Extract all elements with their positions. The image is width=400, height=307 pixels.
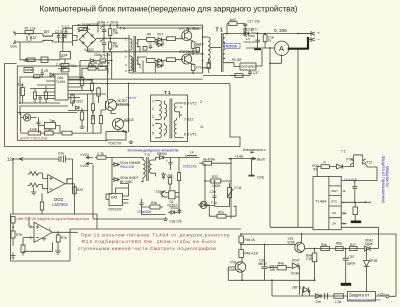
snubber resistor R32 — [227, 22, 245, 26]
T5 feed wires — [141, 158, 143, 182]
svg-text:R Т: R Т — [100, 55, 105, 59]
resistor R31a — [207, 60, 210, 74]
svg-text:С 1,2: С 1,2 — [62, 24, 70, 28]
resistor R29 — [99, 110, 102, 134]
optocoupler box U2 — [230, 49, 262, 70]
resistor R22 — [205, 179, 232, 183]
svg-text:R4в 4,1В: R4в 4,1В — [245, 252, 258, 256]
feedback vertical — [72, 159, 74, 187]
DA1 left pin wires — [30, 77, 55, 99]
svg-text:R22: R22 — [212, 175, 218, 179]
diode VD12 — [76, 106, 79, 109]
resistor R28 — [91, 116, 94, 134]
vertical x231 — [230, 159, 232, 219]
svg-text:L4: L4 — [190, 151, 194, 155]
svg-text:VТ1 2SС945В: VТ1 2SС945В — [179, 27, 199, 31]
capacitor C28 — [213, 194, 217, 201]
svg-text:2Н: 2Н — [332, 222, 336, 226]
svg-text:чУ2В: чУ2В — [287, 240, 295, 244]
resistor R34 — [200, 161, 232, 165]
primary taps — [202, 36, 204, 69]
diodes VD7 — [155, 38, 164, 47]
svg-text:R7в: R7в — [16, 233, 22, 237]
rail y28 — [117, 25, 202, 28]
svg-text:Др1: Др1 — [44, 30, 50, 34]
svg-text:КД4в: КД4в — [365, 242, 373, 246]
svg-text:ОПТОРЕЗ: ОПТОРЕЗ — [241, 65, 256, 69]
resistor 4148 — [28, 131, 41, 135]
svg-text:Компьютерный блок питание(пере: Компьютерный блок питание(переделано для… — [40, 5, 298, 14]
snubber capacitor C17 — [243, 24, 247, 34]
svg-text:−: − — [317, 38, 320, 43]
emitter to R11 — [189, 40, 193, 41]
capacitor C40 — [352, 181, 357, 203]
fuse FU2 — [95, 156, 141, 159]
svg-text:перегрузки по напряжению: перегрузки по напряжению — [348, 298, 381, 301]
svg-text:ОШТ: ОШТ — [331, 189, 338, 193]
ground g3 — [80, 124, 85, 129]
capacitor C37 — [140, 199, 144, 209]
resistor R33 — [142, 205, 164, 209]
svg-text:2: 2 — [200, 100, 202, 104]
resistor R38 — [11, 231, 15, 246]
T1 secondary lower — [223, 50, 230, 63]
diode VD6 — [80, 59, 100, 63]
resistor R50 — [321, 165, 329, 169]
svg-text:ч VD3: ч VD3 — [80, 153, 89, 157]
capacitor C14 — [122, 130, 126, 131]
svg-text:ВЫХ: ВЫХ — [257, 158, 266, 162]
pin labels — [30, 225, 51, 240]
capacitor C58 — [325, 293, 328, 299]
svg-text:ЦвОн: ЦвОн — [347, 262, 356, 266]
transistor VT11 — [351, 159, 354, 166]
pin cell lines — [329, 186, 341, 218]
ground B — [11, 253, 16, 259]
wire 12v arrows — [86, 156, 93, 158]
capacitor C57 — [343, 249, 349, 284]
capacitor C12 — [236, 70, 252, 76]
svg-text:R1в: R1в — [88, 63, 94, 67]
svg-text:1: 1 — [152, 99, 154, 103]
cell labels — [331, 189, 338, 226]
svg-text:2: 2 — [30, 236, 32, 240]
long wire y79 — [68, 78, 203, 80]
ground G2 — [129, 140, 134, 144]
resistor R1v — [71, 94, 74, 106]
resistor R36 — [209, 214, 236, 218]
svg-text:РВИС206: РВИС206 — [120, 165, 134, 169]
T1 core — [222, 33, 224, 72]
svg-text:DТС: DТС — [331, 199, 338, 203]
svg-text:3: 3 — [152, 115, 154, 119]
capacitor C12b — [58, 67, 66, 71]
label KOCA — [225, 43, 241, 48]
svg-text:С17 1Ув: С17 1Ув — [248, 20, 260, 24]
thick ground — [351, 221, 361, 224]
svg-text:6 К VТ1: 6 К VТ1 — [184, 133, 197, 137]
svg-text:1в: 1в — [342, 212, 346, 216]
resistor R40 — [56, 232, 60, 251]
node dots — [92, 83, 129, 122]
wire row y133 — [21, 132, 101, 134]
capacitor C18 — [178, 209, 182, 214]
svg-text:47мк400в: 47мк400в — [137, 210, 151, 214]
svg-text:ШУНТ ТОК 0,5ом: ШУНТ ТОК 0,5ом — [20, 137, 48, 141]
box B outline — [11, 214, 98, 261]
svg-text:2Ув: 2Ув — [316, 300, 322, 304]
svg-text:R1 1,2к: R1 1,2к — [25, 27, 36, 31]
VT9 collector up — [295, 234, 301, 253]
svg-text:С 35: С 35 — [97, 152, 104, 156]
svg-text:R4в: R4в — [321, 243, 327, 247]
trimmer R35 — [228, 183, 234, 202]
svg-text:С2 1мк: С2 1мк — [148, 41, 159, 45]
svg-text:R4в: R4в — [151, 201, 157, 205]
resistor R26 — [62, 131, 72, 135]
TL431 VD16 — [168, 211, 179, 215]
svg-text:ДЗФ: ДЗФ — [61, 54, 68, 58]
+310V rail — [88, 24, 203, 26]
box C right edge — [395, 234, 397, 296]
svg-text:СОиР: СОиР — [228, 268, 237, 272]
bridge rectifier VD1-VD4 — [79, 32, 95, 48]
resistor R49 — [277, 265, 286, 270]
resistor R58 — [334, 294, 344, 298]
wires divider — [205, 163, 236, 216]
T5 core — [147, 157, 149, 181]
right pin labels — [184, 102, 197, 137]
diode VD42 — [365, 246, 379, 251]
capacitor 0,1мк — [45, 131, 54, 135]
svg-text:1в: 1в — [342, 189, 346, 193]
optocoupler PC817 — [165, 191, 179, 199]
wire y112.5 — [17, 112, 77, 114]
svg-text:ТЛ4в1: ТЛ4в1 — [156, 190, 165, 194]
svg-text:0, 20в: 0, 20в — [274, 28, 287, 33]
resistor R20 — [44, 86, 47, 103]
svg-text:R29: R29 — [77, 188, 83, 192]
svg-text:С7: С7 — [197, 44, 201, 48]
svg-text:С12 +: С12 + — [56, 63, 65, 67]
ammeter PA1 — [275, 41, 289, 55]
svg-text:10В: 10В — [270, 268, 276, 272]
left winding b — [155, 124, 161, 138]
svg-text:310в + 20 В: 310в + 20 В — [97, 19, 119, 24]
ground in — [31, 188, 37, 195]
sense resistor R16 — [263, 34, 267, 49]
svg-text:75К: 75К — [113, 31, 119, 35]
resistor R1g — [97, 87, 100, 103]
resistor R11 — [191, 42, 195, 54]
svg-text:КОСА: КОСА — [226, 43, 237, 48]
ground — [24, 58, 29, 61]
ground under R40 — [55, 251, 61, 254]
transistor VT3 — [182, 31, 192, 41]
resistor R39 — [21, 244, 25, 256]
svg-text:LМ2904: LМ2904 — [52, 202, 68, 207]
svg-text:R12 подбиратьот560 Ом. 1Ком,чт: R12 подбиратьот560 Ом. 1Ком,чтобы не был… — [82, 239, 216, 245]
wire op-amp to box — [74, 184, 76, 215]
ground stub СХЕМЕ — [249, 159, 255, 176]
svg-text:Тав: Тав — [50, 119, 56, 123]
svg-text:SB540: SB540 — [157, 152, 167, 156]
resistor R47 — [350, 247, 358, 251]
minus sense wire down — [297, 49, 299, 228]
svg-text:DA3: DA3 — [111, 196, 117, 200]
diode SB540 — [156, 156, 200, 160]
emitter wire to +5 — [367, 167, 377, 181]
wire to VT3 — [164, 37, 182, 40]
svg-text:+: + — [317, 31, 320, 36]
safety arrow — [251, 151, 255, 153]
transistor VT9 — [295, 242, 305, 253]
wire from KC47 down — [295, 266, 299, 295]
node dots row — [314, 248, 368, 250]
svg-text:С57: С57 — [349, 255, 355, 259]
node dots on output rail — [257, 33, 299, 35]
svg-text:СХЕ: СХЕ — [257, 176, 265, 180]
svg-text:Т 5: Т 5 — [144, 152, 151, 157]
capacitor C4 — [101, 38, 106, 52]
svg-text:ТL4в4: ТL4в4 — [316, 200, 327, 204]
pin numbers — [342, 189, 346, 226]
collector to rail — [187, 28, 189, 31]
output wire — [53, 231, 78, 233]
svg-text:С3в 1Ув: С3в 1Ув — [170, 220, 182, 224]
resistor R37 — [11, 217, 15, 232]
cap C10 — [196, 47, 199, 52]
svg-text:ТСА270У: ТСА270У — [108, 142, 123, 146]
VT8 base wire — [228, 267, 235, 280]
svg-text:ЗН: ЗН — [332, 211, 336, 215]
drop to bottom row — [271, 280, 273, 296]
resistor R45 — [239, 234, 244, 243]
wire row y267.6 — [267, 267, 291, 269]
svg-text:11: 11 — [200, 125, 204, 129]
VT8 emitter down — [241, 272, 243, 280]
drive winding — [354, 155, 363, 159]
svg-text:КТ3107: КТ3107 — [118, 103, 129, 107]
midpoint wire — [189, 53, 203, 55]
inner divider — [328, 176, 330, 229]
feed wire — [317, 165, 353, 177]
shunt thick wire — [288, 37, 309, 49]
T1 primary winding — [203, 37, 210, 68]
svg-text:+14в: +14в — [235, 155, 243, 159]
svg-text:схема: схема — [25, 68, 34, 72]
capacitor C15 — [37, 118, 41, 134]
diode VD10 — [50, 73, 54, 77]
svg-text:С2в: С2в — [210, 190, 216, 194]
svg-text:Защита от превышения: Защита от превышения — [381, 156, 386, 204]
mid rail — [96, 37, 129, 39]
diodes VD8 — [155, 59, 164, 68]
varistor RU1 — [77, 27, 90, 32]
svg-text:+4в: +4в — [122, 130, 128, 134]
module label box — [348, 292, 376, 302]
svg-text:Источник дежурного питания 5в: Источник дежурного питания 5в — [128, 148, 179, 153]
svg-text:С37: С37 — [253, 71, 259, 75]
resistor R46 — [239, 250, 244, 258]
capacitor C3 — [101, 25, 106, 38]
inner winding b — [165, 123, 167, 136]
svg-text:R2в: R2в — [218, 211, 224, 215]
svg-text:С2в: С2в — [58, 152, 64, 156]
wire x87.5 — [68, 94, 88, 132]
svg-text:VD7: VD7 — [157, 33, 163, 37]
resistor R14 — [167, 58, 176, 62]
transistor VT6 — [105, 99, 116, 110]
svg-text:Т 1: Т 1 — [164, 90, 171, 95]
wire x107 vertical — [107, 53, 109, 100]
wire x112 vertical — [111, 158, 113, 195]
diode VD18 — [337, 164, 343, 169]
emitter resistor R15 — [191, 65, 195, 74]
svg-text:+: + — [100, 40, 102, 44]
svg-text:TL494: TL494 — [56, 80, 65, 84]
svg-text:R5в: R5в — [336, 242, 342, 246]
resistor R44 — [336, 247, 344, 251]
svg-text:R4?: R4? — [350, 243, 356, 247]
svg-text:Т 1: Т 1 — [341, 150, 346, 154]
capacitor C9 — [41, 69, 45, 78]
transistor VT4 — [182, 54, 192, 64]
wire C4 — [63, 28, 73, 51]
feedback loop — [23, 242, 53, 251]
label diode block blue — [244, 34, 256, 44]
node dots DA1 — [19, 65, 108, 104]
svg-text:4в 470м: 4в 470м — [203, 158, 215, 162]
svg-text:При 12 вольтом питание ТL494: При 12 вольтом питание ТL494 от дежурки,… — [81, 232, 230, 238]
svg-text:Сеть: Сеть — [10, 45, 17, 49]
svg-text:+: + — [100, 27, 102, 31]
svg-text:С2,3: С2,3 — [55, 30, 62, 34]
svg-text:+1в ЧУ: +1в ЧУ — [126, 96, 137, 100]
resistor Rin1 zigzag — [28, 172, 43, 176]
capacitor C13 — [39, 96, 43, 104]
svg-text:УТВ: УТВ — [230, 261, 236, 265]
inner winding a — [165, 101, 167, 121]
wire top — [20, 34, 43, 43]
T1 secondary upper — [223, 34, 240, 47]
resistor R1d — [80, 108, 83, 124]
box П1 — [41, 57, 48, 63]
svg-text:КС513ХЕ: КС513ХЕ — [183, 165, 197, 169]
svg-text:R1г: R1г — [98, 63, 104, 67]
diode VD53 — [162, 173, 165, 180]
left winding a — [155, 101, 161, 120]
resistor R21 — [80, 77, 83, 91]
capacitor C26 — [59, 156, 66, 163]
node dots — [12, 226, 59, 233]
box Тав — [39, 123, 61, 134]
svg-text:С2Ув+АУ: С2Ув+АУ — [244, 40, 256, 44]
svg-text:РС-ВЗ: РС-ВЗ — [232, 58, 241, 62]
T2 winding primary — [129, 35, 132, 73]
wire +14v — [231, 158, 248, 160]
svg-text:VТ11: VТ11 — [346, 158, 354, 162]
capacitor C16 — [169, 158, 173, 171]
wires VT6 VT7 — [101, 101, 129, 132]
feedback wire from output — [246, 48, 282, 227]
choke L1 bifilar — [43, 34, 53, 43]
wire y83.5 long — [106, 83, 230, 85]
wire base row y244.5 — [241, 243, 295, 250]
svg-text:Защита от: Защита от — [349, 293, 369, 298]
output capacitor C10 — [255, 34, 260, 49]
node dot — [264, 244, 266, 246]
resistor R48 — [321, 247, 330, 251]
resistor R3 — [100, 59, 112, 62]
capacitor C28 — [261, 245, 267, 281]
svg-text:0в01У: 0в01У — [258, 262, 268, 266]
svg-text:2: 2 — [152, 107, 154, 111]
transistor VT8 — [235, 258, 245, 273]
resistor R19 — [33, 89, 36, 104]
wire T1 bottom — [203, 75, 236, 77]
inductor L4 — [185, 154, 197, 157]
left pin numbers — [152, 99, 154, 136]
op-amp output — [65, 179, 75, 194]
resistor R29b — [73, 187, 76, 194]
capacitor C3 — [62, 34, 66, 43]
svg-text:П2: П2 — [313, 168, 317, 172]
output diode VD9 — [230, 32, 251, 36]
wire to VT4 — [164, 59, 183, 61]
resistor R6 — [109, 38, 112, 52]
node dots — [204, 158, 230, 182]
svg-text:ступеньыми нижней части.Смотре: ступеньыми нижней части.Смотреть осцилог… — [78, 245, 216, 252]
resistor R31 — [177, 158, 180, 213]
svg-text:Т 4: Т 4 — [120, 26, 127, 31]
plus terminal — [298, 31, 315, 36]
svg-text:R4в 1К: R4в 1К — [245, 238, 255, 242]
resistor R2 — [27, 58, 35, 62]
wire x111.7 — [111, 52, 113, 79]
TL431 symbol — [160, 191, 166, 198]
node dots rails — [103, 24, 118, 52]
svg-text:КС47: КС47 — [292, 259, 300, 263]
svg-text:R7в: R7в — [61, 236, 67, 240]
capacitor C1 — [27, 34, 31, 42]
ground bars — [163, 217, 168, 221]
ground bar under caps — [254, 48, 261, 50]
arrow 12в — [19, 158, 26, 161]
svg-text:2.1В: 2.1В — [306, 257, 313, 261]
box R8a — [143, 46, 147, 50]
svg-text:КТ3102: КТ3102 — [72, 100, 83, 104]
capacitor C2a — [149, 45, 153, 50]
small boxes row — [61, 59, 69, 72]
T1 primary vertical feed — [202, 25, 204, 73]
IC DA1 TL494 — [55, 74, 68, 100]
svg-text:4в07: 4в07 — [230, 18, 237, 22]
svg-text:Мощности: Мощности — [385, 166, 390, 187]
resistor R1 — [25, 31, 34, 34]
T1 box — [151, 95, 188, 142]
diode KC47 — [292, 263, 300, 269]
long wire y227 — [270, 227, 379, 248]
T1 core lines — [170, 99, 172, 139]
T5 right winding — [149, 158, 155, 177]
capacitor C2 — [57, 34, 61, 43]
right winding top — [174, 103, 183, 118]
svg-text:Т 1: Т 1 — [216, 28, 223, 34]
svg-text:4148: 4148 — [30, 128, 37, 132]
resistor R30 — [230, 74, 243, 78]
svg-text:1: 1 — [49, 227, 51, 231]
